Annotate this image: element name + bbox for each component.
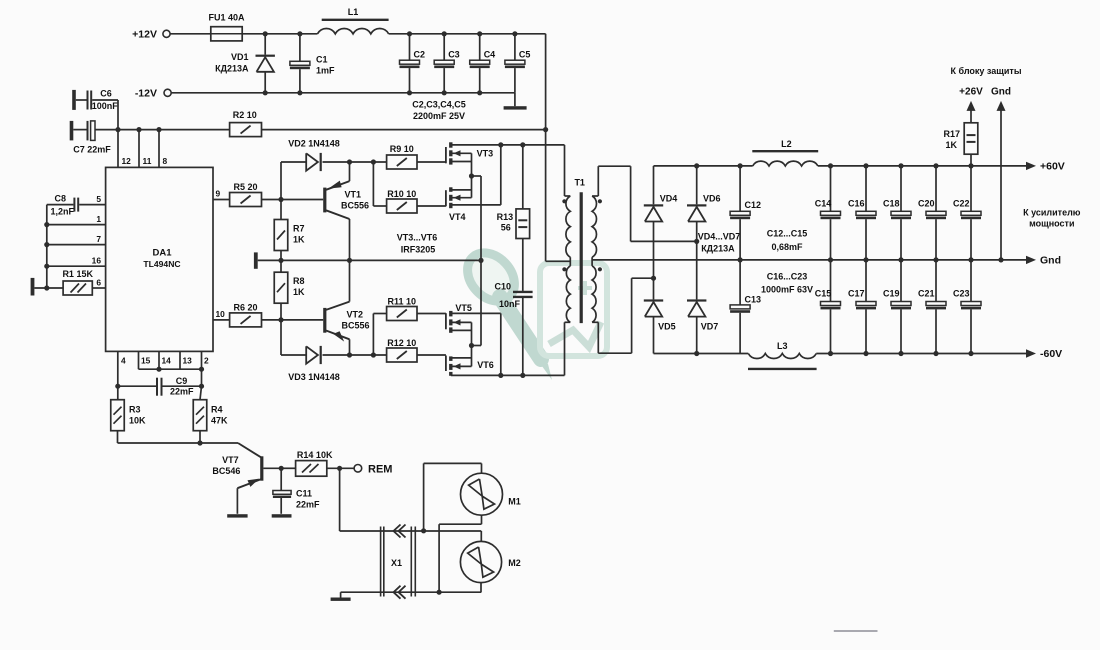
resistor R17 1K (970, 154, 972, 166)
resistor R1 15K (63, 281, 92, 295)
svg-text:C21: C21 (918, 289, 935, 299)
wire VT5 substrate (453, 321, 472, 323)
node pin1 (44, 222, 49, 227)
node VT2 emitter (347, 352, 352, 357)
svg-text:47K: 47K (211, 416, 228, 426)
svg-text:VD6: VD6 (703, 194, 721, 204)
svg-text:VD1: VD1 (231, 52, 249, 62)
svg-text:C15: C15 (815, 289, 832, 299)
wire R14 to REM (327, 467, 355, 469)
diode VD6 KD213A (696, 166, 698, 204)
wire S2 bottom to AC2 (592, 321, 598, 323)
svg-text:DA1: DA1 (152, 248, 172, 259)
node pin2 bus (199, 367, 204, 372)
svg-text:C10: C10 (494, 282, 511, 292)
node Gnd arrow (997, 101, 1006, 111)
node C1 on -12V rail (297, 90, 302, 95)
node X1 bottom junction (437, 590, 442, 595)
svg-text:C14: C14 (815, 199, 832, 209)
svg-text:КД213А: КД213А (701, 244, 735, 254)
ground at -12V rail end (514, 93, 516, 106)
wire primary center tap (569, 257, 571, 266)
svg-text:X1: X1 (391, 558, 402, 568)
svg-text:BC556: BC556 (342, 321, 370, 331)
node mid lower pair (469, 343, 474, 348)
transistor Q VT6 IRF3205 (445, 356, 447, 372)
capacitor C7 22mF (73, 129, 86, 131)
svg-text:R5 20: R5 20 (233, 182, 257, 192)
capacitor C12 (739, 166, 741, 211)
svg-text:+60V: +60V (1040, 161, 1065, 173)
svg-text:11: 11 (143, 156, 152, 166)
wire C6 down to supply line (117, 100, 119, 130)
pin 9 wire (213, 199, 230, 201)
node pin8 riser (156, 127, 161, 132)
svg-text:4: 4 (121, 356, 126, 366)
node pin16 (44, 264, 49, 269)
connector X1 chevron top (394, 525, 401, 538)
node C19 bottom (898, 351, 903, 356)
svg-text:C7 22mF: C7 22mF (73, 145, 111, 155)
svg-text:R8: R8 (293, 276, 305, 286)
wire S1 top to AC1 (592, 195, 598, 197)
wire R5 to VT1 base (262, 199, 324, 201)
node C5 junction (512, 31, 517, 36)
svg-text:R1 15K: R1 15K (62, 269, 93, 279)
node C1 junction (297, 31, 302, 36)
wire R1 to pin 6 (92, 287, 105, 289)
wire gnd to R1 (34, 287, 63, 289)
svg-text:2: 2 (204, 356, 209, 366)
resistor R7 1K (280, 200, 282, 220)
wire VT3 substrate (453, 152, 472, 154)
node X1 top junction (421, 528, 426, 533)
svg-text:R13: R13 (497, 212, 514, 222)
svg-text:R3: R3 (129, 405, 141, 415)
svg-text:1K: 1K (293, 235, 305, 245)
node VD3/R8 junction (278, 317, 283, 322)
node C15 bottom (828, 351, 833, 356)
transistor Q VT2 BC556 (323, 308, 326, 333)
svg-text:М1: М1 (508, 496, 521, 506)
wire R11 to VT5 gate (417, 313, 446, 315)
node C17 bottom (863, 351, 868, 356)
node C20 top (933, 163, 938, 168)
pin 1 wire (47, 224, 106, 226)
node +26V arrow (967, 101, 976, 111)
wire fuse to L1 (242, 33, 317, 35)
svg-text:VT4: VT4 (449, 212, 466, 222)
svg-text:C8: C8 (54, 194, 66, 204)
svg-text:BC546: BC546 (212, 466, 240, 476)
node VD1 junction (263, 31, 268, 36)
svg-text:мощности: мощности (1029, 219, 1074, 229)
svg-text:R12 10: R12 10 (387, 338, 416, 348)
capacitor C1 1mF (299, 34, 301, 62)
svg-text:C6: C6 (100, 89, 112, 99)
wire M2 top (424, 530, 482, 532)
node C12 top (738, 163, 743, 168)
pin 4 (117, 351, 119, 386)
wire VT3 source (453, 161, 472, 163)
wire VT4 drain (453, 189, 472, 191)
winding T1 secondary upper (592, 196, 596, 257)
wire REM down (339, 468, 341, 531)
winding T1 primary upper (566, 196, 570, 257)
node C22/C23 gnd (968, 257, 973, 262)
svg-text:C1: C1 (316, 55, 328, 65)
svg-text:C11: C11 (296, 489, 312, 499)
terminal bar C7 (70, 121, 74, 140)
node C4 junction (477, 31, 482, 36)
node C18/C19 gnd (898, 257, 903, 262)
node C4 on -12V rail (477, 90, 482, 95)
node REM junction (337, 466, 342, 471)
wire source column upper pair (471, 153, 473, 197)
svg-text:L1: L1 (348, 7, 359, 17)
svg-text:Gnd: Gnd (1040, 255, 1061, 267)
node VD1 on -12V rail (263, 90, 268, 95)
node VD7 anode bottom rail (694, 351, 699, 356)
svg-text:Gnd: Gnd (991, 87, 1011, 98)
wire R10 to VT4 gate (417, 205, 446, 207)
resistor R10 10 (372, 162, 374, 206)
svg-text:13: 13 (183, 356, 193, 366)
node pin6 bus (44, 285, 49, 290)
node VD2/R7 junction (278, 197, 283, 202)
svg-text:КД213А: КД213А (215, 64, 249, 74)
connector X1 chevron bottom (394, 586, 401, 599)
svg-text:1000mF 63V: 1000mF 63V (761, 285, 813, 295)
svg-text:12: 12 (122, 156, 132, 166)
svg-text:VD7: VD7 (701, 322, 719, 332)
wire pins 15-14-13-2 bus (139, 368, 202, 370)
ground at C11 (272, 514, 292, 517)
node C10 bottom rail (520, 373, 525, 378)
svg-text:9: 9 (216, 189, 221, 199)
svg-text:T1: T1 (574, 178, 585, 188)
node C18 top (898, 163, 903, 168)
svg-text:R11 10: R11 10 (388, 297, 417, 307)
svg-text:1mF: 1mF (316, 66, 335, 76)
svg-text:R10 10: R10 10 (387, 189, 416, 199)
node C21 bottom (933, 351, 938, 356)
svg-text:10: 10 (216, 309, 226, 319)
winding T1 primary lower (566, 266, 570, 322)
capacitor C9 22mF (156, 378, 158, 396)
svg-text:VT3...VT6: VT3...VT6 (397, 233, 438, 243)
wire primary bottom riser (565, 321, 571, 323)
svg-text:+26V: +26V (959, 87, 983, 98)
svg-text:C3: C3 (448, 50, 460, 60)
svg-text:FU1 40A: FU1 40A (208, 13, 245, 23)
node C20/C21 gnd (933, 257, 938, 262)
wire left bus column (46, 205, 48, 288)
wire L1 to +12V rail corner (389, 33, 546, 35)
capacitor C8 1.2nF (73, 198, 75, 212)
svg-text:5: 5 (96, 194, 101, 204)
wire mid node jog (472, 175, 482, 177)
svg-text:C17: C17 (848, 289, 865, 299)
transistor Q VT3 IRF3205 (445, 147, 447, 163)
node VT5 source/bottom rail (498, 373, 503, 378)
wire mid node jog lower (472, 345, 482, 347)
speaker M2 (460, 541, 501, 582)
watermark logo (458, 244, 607, 380)
svg-text:L3: L3 (777, 341, 788, 351)
node R11 branch (371, 352, 376, 357)
node R10 branch (371, 159, 376, 164)
svg-text:REM: REM (368, 464, 392, 476)
node phase dot secondary upper (598, 199, 602, 203)
ground bar mid line (254, 252, 258, 268)
fuse FU1 40A (211, 27, 242, 41)
pin 15 (138, 351, 140, 369)
node -60V output arrow (1026, 349, 1036, 357)
svg-text:+12V: +12V (132, 29, 157, 41)
diode VD1 KD213A (264, 34, 266, 55)
svg-text:16: 16 (92, 256, 102, 266)
node C22/R17 top (968, 163, 973, 168)
svg-text:1,2nF: 1,2nF (50, 207, 74, 217)
svg-text:100nF: 100nF (92, 101, 119, 111)
wire R12 to VT6 gate (417, 354, 446, 356)
resistor R8 1K (280, 260, 282, 272)
svg-text:1: 1 (96, 214, 101, 224)
svg-text:C2: C2 (414, 50, 426, 60)
svg-text:1K: 1K (293, 287, 305, 297)
svg-text:VT1: VT1 (345, 190, 362, 200)
svg-text:R9 10: R9 10 (390, 144, 414, 154)
node pin12 riser (115, 127, 120, 132)
resistor R13 56 (522, 145, 524, 209)
svg-text:1K: 1K (945, 140, 957, 150)
svg-text:0,68mF: 0,68mF (771, 242, 803, 252)
svg-text:К усилителю: К усилителю (1023, 208, 1081, 218)
svg-text:R7: R7 (293, 224, 305, 234)
wire collector line to output node (258, 259, 481, 261)
wire R6 to VT2 base (262, 319, 324, 321)
wire -60V rail (654, 353, 749, 355)
svg-text:2200mF 25V: 2200mF 25V (413, 111, 465, 121)
diode VD5 KD213A (644, 299, 663, 301)
svg-text:VT7: VT7 (222, 455, 239, 465)
node pin7 (44, 242, 49, 247)
wire M1 loop (423, 463, 425, 531)
transistor Q VT5 IRF3205 (445, 313, 447, 329)
svg-text:C12: C12 (745, 200, 762, 210)
node gnd riser (998, 257, 1003, 262)
transformer T1 core (580, 192, 583, 323)
svg-text:C5: C5 (519, 50, 531, 60)
ground at X1 (331, 598, 351, 601)
pin 8 (158, 130, 160, 168)
svg-text:VD4...VD7: VD4...VD7 (698, 232, 741, 242)
terminal bar C6 (72, 90, 76, 110)
wire VT6 substrate (453, 365, 472, 367)
svg-text:10K: 10K (129, 416, 146, 426)
transistor Q VT7 BC546 (238, 443, 262, 458)
transistor Q VT1 BC556 (323, 188, 326, 213)
node phase dot primary lower (562, 267, 566, 271)
pin 13 (179, 351, 181, 369)
node phase dot primary upper (562, 199, 566, 203)
resistor R2 10 (230, 123, 262, 137)
wire R9 to VT3 gate (417, 161, 446, 163)
wire source column lower pair (471, 322, 473, 366)
connector X1 (380, 527, 382, 597)
svg-text:VT5: VT5 (455, 303, 472, 313)
diode VD7 KD213A (696, 241, 698, 299)
node C2 junction (407, 31, 412, 36)
node pin4/C9 (115, 384, 120, 389)
node phase dot secondary lower (598, 267, 602, 271)
wire VT6 drain (453, 357, 472, 359)
node mid upper pair (469, 173, 474, 178)
node R13 top rail (520, 142, 525, 147)
op-amp U1 DA1 TL494NC box (106, 167, 213, 351)
capacitor C11 22mF (280, 468, 282, 490)
capacitor C21 (935, 260, 937, 302)
svg-text:К блоку защиты: К блоку защиты (950, 66, 1021, 76)
capacitor C13 (739, 260, 741, 305)
wire +60V rail (654, 165, 753, 167)
svg-text:IRF3205: IRF3205 (401, 245, 436, 255)
svg-text:VD2 1N4148: VD2 1N4148 (288, 139, 340, 149)
svg-text:C2,C3,C4,C5: C2,C3,C4,C5 (412, 100, 466, 110)
svg-text:22mF: 22mF (296, 500, 320, 510)
wire C9 line (118, 385, 156, 387)
pin 7 wire (47, 244, 106, 246)
wire Gnd line (592, 259, 1031, 261)
node C14/C15 gnd (828, 257, 833, 262)
wire REM to X1 top (340, 530, 424, 532)
wire VT6 source / bottom rail (451, 374, 565, 376)
decor bottom line (834, 630, 878, 632)
wire top rail riser to primary (564, 145, 566, 196)
capacitor C22 (970, 166, 972, 211)
svg-text:C20: C20 (918, 199, 935, 209)
svg-text:R4: R4 (211, 405, 223, 415)
svg-text:15: 15 (141, 356, 151, 366)
node C16 top (863, 163, 868, 168)
capacitor C16 (865, 166, 867, 211)
svg-text:56: 56 (501, 223, 511, 233)
wire R2 to +12V rail (262, 129, 546, 131)
resistor R3 10K (117, 386, 119, 400)
svg-text:R14 10K: R14 10K (297, 450, 333, 460)
resistor R12 10 (387, 348, 417, 362)
diode VD2 1N4148 (281, 161, 306, 163)
svg-text:L2: L2 (781, 139, 792, 149)
node C16/C17 gnd (863, 257, 868, 262)
svg-text:VT2: VT2 (347, 310, 364, 320)
svg-text:C13: C13 (745, 295, 762, 305)
node pin2/C9 (199, 384, 204, 389)
transistor Q VT4 IRF3205 (445, 190, 447, 206)
capacitor C2 (409, 34, 411, 60)
svg-text:R6 20: R6 20 (233, 303, 257, 313)
svg-text:C18: C18 (883, 199, 900, 209)
capacitor C4 (479, 34, 481, 60)
svg-text:VD4: VD4 (660, 194, 678, 204)
wire VT5 source to bottom rail (453, 312, 501, 314)
node pin14 bus (156, 367, 161, 372)
svg-text:C9: C9 (176, 376, 188, 386)
pin 11 (138, 130, 140, 168)
capacitor C17 (865, 260, 867, 302)
resistor R5 20 (230, 193, 262, 207)
node AC1/VD6 anode (694, 239, 699, 244)
diode VD4 KD213A (653, 166, 655, 204)
wire VT7 emitter to ground (236, 488, 238, 514)
svg-text:М2: М2 (508, 558, 521, 568)
pin 10 wire (213, 319, 230, 321)
node C23 bottom (968, 351, 973, 356)
node VT1 emitter (347, 159, 352, 164)
node collector line join (478, 258, 483, 263)
capacitor C3 (443, 34, 445, 60)
svg-text:8: 8 (163, 156, 168, 166)
svg-text:C12...C15: C12...C15 (767, 229, 808, 239)
wire VT3 drain / top rail (453, 144, 565, 146)
node VT4 source/top rail (498, 142, 503, 147)
wire center tap horizontal (546, 260, 571, 262)
node VD6 top (694, 163, 699, 168)
svg-text:C23: C23 (953, 289, 970, 299)
ground bar at R1 (31, 278, 35, 296)
capacitor C15 (830, 260, 832, 302)
node REM terminal (354, 465, 362, 473)
capacitor C5 (514, 34, 516, 60)
pin 5 wire with C8 (79, 204, 105, 206)
winding T1 secondary lower (592, 266, 596, 322)
wire secondary junction (591, 257, 593, 266)
wire X1 bottom (341, 591, 482, 593)
resistor R14 10K (281, 467, 295, 469)
svg-text:VD3 1N4148: VD3 1N4148 (288, 372, 340, 382)
wire +12V to fuse (170, 33, 211, 35)
capacitor C23 (970, 260, 972, 302)
node VT1/VT2 collectors (347, 258, 352, 263)
svg-text:TL494NC: TL494NC (143, 259, 180, 269)
svg-text:6: 6 (96, 277, 101, 287)
wire -12V rail (171, 92, 515, 94)
pin 14 (158, 351, 160, 369)
node R7/R8 (278, 258, 283, 263)
svg-text:C4: C4 (484, 50, 496, 60)
node C14 top (828, 163, 833, 168)
svg-text:C22: C22 (953, 199, 970, 209)
svg-text:C19: C19 (883, 289, 900, 299)
node VT7 base/C11 (279, 466, 284, 471)
wire VT5 drain (453, 329, 472, 331)
capacitor C20 (935, 166, 937, 211)
pin 2 (201, 351, 203, 386)
svg-text:R17: R17 (943, 129, 960, 139)
node C2 on -12V rail (407, 90, 412, 95)
svg-text:R2 10: R2 10 (233, 110, 257, 120)
pin 16 wire (47, 265, 106, 267)
capacitor C18 (900, 166, 902, 211)
svg-text:10nF: 10nF (499, 299, 521, 309)
svg-text:14: 14 (162, 356, 172, 366)
node pin11 riser (136, 127, 141, 132)
node AC2/VD4 anode (651, 276, 656, 281)
resistor R6 20 (230, 313, 262, 327)
capacitor C6 100nF (76, 99, 87, 101)
node R2 to +12V rail (543, 127, 548, 132)
